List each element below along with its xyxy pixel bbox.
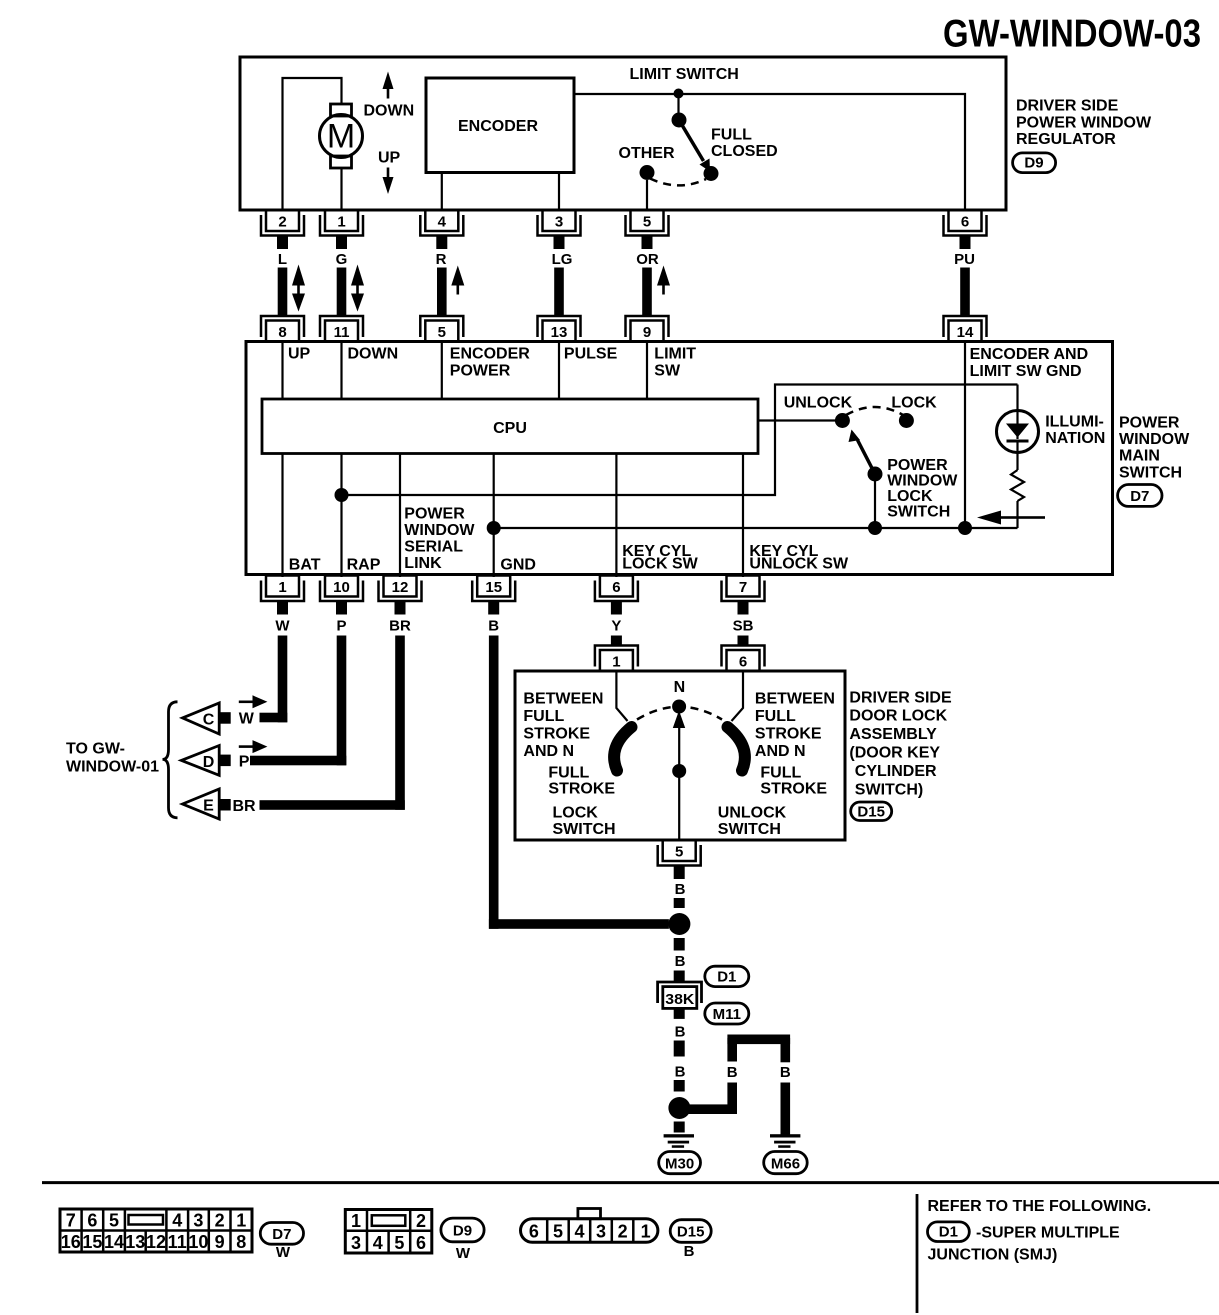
dashed arc between OTHER and FULL CLOSED: [650, 179, 706, 186]
wire LG (pin3 to pin13): [554, 268, 564, 316]
svg-text:ENCODER AND: ENCODER AND: [970, 346, 1089, 363]
svg-text:UP: UP: [288, 346, 311, 363]
svg-text:6: 6: [529, 1222, 539, 1242]
svg-text:B: B: [727, 1064, 738, 1081]
svg-text:LOCK SW: LOCK SW: [622, 556, 698, 573]
svg-text:12: 12: [146, 1232, 166, 1252]
svg-text:MAIN: MAIN: [1119, 448, 1160, 465]
svg-text:STROKE: STROKE: [548, 781, 615, 798]
svg-text:FULL: FULL: [755, 708, 796, 725]
contact UNLOCK dot: [835, 413, 850, 428]
connector oval D9 (bottom): [441, 1218, 484, 1242]
power window lock switch lever with arrow: [849, 430, 876, 475]
svg-text:W: W: [239, 711, 255, 728]
connector pin 14 (main switch D7): [944, 316, 987, 342]
limit switch contact OTHER: [640, 165, 655, 180]
svg-text:GW-WINDOW-03: GW-WINDOW-03: [943, 13, 1201, 56]
connector pin 5 (main switch D7): [420, 316, 463, 342]
svg-text:6: 6: [87, 1211, 97, 1231]
wire BR vertical: [395, 636, 405, 810]
encoder box: [426, 78, 574, 173]
svg-text:BAT: BAT: [289, 557, 321, 574]
connector oval D1: [705, 966, 749, 986]
svg-text:BR: BR: [389, 618, 411, 635]
svg-text:5: 5: [438, 324, 446, 341]
svg-text:M66: M66: [771, 1156, 800, 1173]
svg-text:WINDOW-01: WINDOW-01: [66, 759, 159, 776]
svg-text:4: 4: [574, 1222, 584, 1242]
connector pin 1 (main switch D7): [261, 576, 304, 615]
svg-text:SWITCH: SWITCH: [887, 504, 950, 521]
svg-text:5: 5: [643, 214, 651, 231]
node: RAP junction dot: [335, 488, 349, 502]
wire L (pin2 to pin8): [278, 268, 288, 316]
svg-text:SWITCH: SWITCH: [1119, 465, 1182, 482]
lever wire to pin 5: [678, 728, 680, 840]
svg-text:ILLUMI-: ILLUMI-: [1045, 414, 1104, 431]
label KEY CYL LOCK SW: [622, 543, 698, 573]
wire B branch right leg lower: [781, 1083, 791, 1136]
wire pin6 to unlock contact: [732, 671, 744, 721]
svg-text:2: 2: [416, 1211, 426, 1231]
connector oval D7 (bottom): [260, 1223, 303, 1245]
label DRIVER SIDE DOOR LOCK ASSEMBLY (DOOR KEY CYLINDER SWITCH): [849, 690, 952, 799]
svg-text:CYLINDER: CYLINDER: [855, 763, 937, 780]
svg-text:3: 3: [555, 214, 563, 231]
svg-text:B: B: [684, 1243, 695, 1260]
power window main switch box D7: [246, 342, 1113, 575]
svg-text:B: B: [675, 1064, 686, 1081]
svg-text:GND: GND: [500, 557, 536, 574]
svg-text:UNLOCK: UNLOCK: [718, 805, 787, 822]
connector pin 1 (door lock D15): [595, 646, 638, 672]
svg-text:M30: M30: [665, 1156, 694, 1173]
wire CPU to pin6 key cyl lock: [615, 454, 617, 578]
svg-text:1: 1: [337, 214, 345, 231]
svg-text:D: D: [203, 754, 215, 771]
svg-text:B: B: [675, 881, 686, 898]
svg-text:LOCK: LOCK: [887, 488, 933, 505]
connector pin 5 (regulator D9): [626, 210, 669, 249]
right arrow above P: [239, 740, 268, 753]
svg-text:RAP: RAP: [347, 557, 381, 574]
svg-text:FULL: FULL: [711, 127, 752, 144]
svg-text:N: N: [674, 679, 686, 696]
svg-text:5: 5: [394, 1233, 404, 1253]
svg-text:6: 6: [416, 1233, 426, 1253]
svg-text:B: B: [675, 953, 686, 970]
separator vertical line: [916, 1194, 919, 1313]
svg-text:W: W: [276, 1244, 291, 1261]
svg-text:4: 4: [438, 214, 447, 231]
ground symbol M30: [664, 1134, 694, 1148]
limit switch common node: [672, 89, 687, 128]
motor M: [320, 104, 363, 168]
svg-text:CLOSED: CLOSED: [711, 143, 778, 160]
connector pin 6 (main switch D7): [595, 576, 638, 615]
svg-text:NATION: NATION: [1045, 430, 1105, 447]
connector pin 7 (main switch D7): [722, 576, 765, 615]
wire pin5 to CPU: [441, 342, 443, 400]
lock switch contact band (left crescent): [614, 727, 631, 771]
label FULL CLOSED: [711, 127, 778, 161]
svg-text:D7: D7: [1130, 488, 1149, 505]
label LIMIT SW: [654, 346, 696, 380]
unlock switch contact band (right crescent): [728, 727, 745, 771]
wire: encoder to limit switch to pin 6: [574, 94, 965, 210]
svg-text:M: M: [327, 118, 355, 156]
svg-text:5: 5: [109, 1211, 119, 1231]
wire B branch horizontal from junction: [679, 1104, 737, 1114]
svg-text:DRIVER SIDE: DRIVER SIDE: [1016, 98, 1119, 115]
wire: motor to pin 2: [283, 78, 342, 210]
wire B dash: [674, 971, 685, 983]
svg-text:SWITCH: SWITCH: [718, 821, 781, 838]
wire: motor to pin 1: [340, 168, 342, 210]
connector oval D9: [1013, 153, 1056, 173]
svg-text:15: 15: [82, 1232, 102, 1252]
svg-text:SW: SW: [654, 363, 681, 380]
svg-text:G: G: [336, 251, 348, 268]
connector pin 5 (door lock D15): [658, 840, 701, 879]
svg-text:D15: D15: [857, 804, 885, 821]
svg-text:LINK: LINK: [404, 555, 442, 572]
svg-text:POWER: POWER: [404, 506, 465, 523]
connector oval D15 (bottom): [670, 1220, 711, 1243]
svg-text:6: 6: [739, 654, 747, 671]
wire SB stub: [738, 636, 749, 646]
left arrow on gnd rail: [977, 511, 1045, 525]
svg-text:DOOR LOCK: DOOR LOCK: [849, 708, 947, 725]
arrow up (DOWN direction): [383, 72, 394, 99]
wire pin14 to gnd rail: [964, 342, 966, 529]
dashed arc between UNLOCK and LOCK: [846, 407, 903, 415]
connector pin 11 (main switch D7): [320, 316, 363, 342]
connector pin 9 (main switch D7): [626, 316, 669, 342]
svg-text:7: 7: [66, 1211, 76, 1231]
wire CPU to pin10 RAP: [340, 454, 342, 578]
svg-text:14: 14: [104, 1232, 124, 1252]
svg-text:LG: LG: [552, 251, 573, 268]
svg-text:AND N: AND N: [523, 743, 574, 760]
svg-text:B: B: [780, 1064, 791, 1081]
svg-text:9: 9: [643, 324, 651, 341]
svg-text:R: R: [436, 251, 447, 268]
wire B vertical (GND): [489, 636, 499, 929]
svg-text:OR: OR: [636, 251, 659, 268]
wire: OTHER contact to pin 5: [646, 180, 648, 210]
ground name oval M30: [659, 1152, 701, 1174]
ground symbol M66: [770, 1134, 800, 1148]
wire CPU to pin12 serial: [399, 454, 401, 578]
connector oval D1 (refer): [928, 1222, 970, 1242]
connector oval D7: [1118, 485, 1162, 507]
wire B branch top bar: [727, 1035, 790, 1045]
wire P vertical: [337, 636, 347, 766]
svg-text:LIMIT SW GND: LIMIT SW GND: [970, 363, 1082, 380]
wire resistor to gnd rail: [1016, 501, 1018, 528]
wire W vertical: [278, 636, 288, 723]
svg-text:L: L: [278, 251, 287, 268]
lock switch pivot dot: [868, 467, 883, 482]
wire pivot to gnd rail: [874, 474, 876, 528]
svg-text:M11: M11: [713, 1006, 741, 1023]
svg-text:POWER: POWER: [887, 457, 948, 474]
svg-text:REFER TO THE FOLLOWING.: REFER TO THE FOLLOWING.: [928, 1198, 1152, 1215]
svg-text:D9: D9: [1024, 155, 1043, 172]
svg-text:5: 5: [553, 1222, 563, 1242]
svg-text:15: 15: [485, 579, 502, 596]
connector pin 12 (main switch D7): [379, 576, 422, 615]
svg-text:UNLOCK: UNLOCK: [784, 395, 853, 412]
svg-text:5: 5: [675, 844, 683, 861]
wire R (pin4 to pin5): [437, 268, 447, 316]
connector pin 3 (regulator D9): [538, 210, 581, 249]
wire lock box top to LED: [1016, 385, 1018, 413]
svg-text:(DOOR KEY: (DOOR KEY: [849, 745, 940, 762]
wire P horizontal to triangle D: [250, 756, 346, 766]
svg-text:11: 11: [334, 324, 350, 341]
svg-text:PU: PU: [954, 251, 975, 268]
CPU box: [262, 399, 758, 454]
svg-text:3: 3: [193, 1211, 203, 1231]
svg-text:PULSE: PULSE: [564, 346, 618, 363]
svg-text:W: W: [275, 618, 290, 635]
svg-text:FULL: FULL: [760, 765, 801, 782]
svg-text:SWITCH: SWITCH: [553, 821, 616, 838]
wire pin8 to CPU: [281, 342, 283, 400]
svg-text:SB: SB: [733, 618, 754, 635]
svg-text:DOWN: DOWN: [348, 346, 399, 363]
wire B branch left leg lower: [727, 1083, 737, 1115]
svg-text:SERIAL: SERIAL: [404, 539, 463, 556]
node: pin14 gnd dot: [958, 521, 972, 535]
svg-text:STROKE: STROKE: [755, 726, 822, 743]
label TO GW-WINDOW-01: [66, 741, 159, 776]
gnd rail horizontal: [494, 527, 1018, 529]
svg-text:BETWEEN: BETWEEN: [755, 691, 835, 708]
svg-text:ASSEMBLY: ASSEMBLY: [849, 726, 937, 743]
label POWER WINDOW MAIN SWITCH: [1119, 415, 1190, 482]
svg-text:UNLOCK SW: UNLOCK SW: [749, 556, 849, 573]
node: GND junction dot: [487, 521, 501, 535]
svg-text:8: 8: [278, 324, 286, 341]
connector pin 1 (regulator D9): [320, 210, 363, 249]
wire RAP junction to lock switch box: [342, 385, 1018, 496]
svg-text:LOCK: LOCK: [891, 395, 937, 412]
svg-text:LIMIT: LIMIT: [654, 346, 696, 363]
svg-text:OTHER: OTHER: [619, 145, 675, 162]
resistor (illumination): [1011, 470, 1024, 501]
svg-text:16: 16: [61, 1232, 81, 1252]
wire: encoder to pin 4: [441, 173, 443, 211]
wire B stub above M30 ground: [674, 1122, 685, 1133]
label POWER WINDOW LOCK SWITCH: [887, 457, 958, 521]
svg-text:ENCODER: ENCODER: [450, 346, 530, 363]
svg-text:38K: 38K: [665, 992, 695, 1008]
svg-text:D1: D1: [939, 1224, 958, 1241]
svg-text:STROKE: STROKE: [523, 726, 590, 743]
svg-text:1: 1: [612, 654, 620, 671]
svg-text:STROKE: STROKE: [760, 781, 827, 798]
connector oval M11: [705, 1003, 749, 1024]
svg-text:10: 10: [333, 579, 350, 596]
connector oval D15: [851, 802, 892, 821]
limit switch lever with arrow: [679, 120, 710, 172]
label LOCK SWITCH: [553, 805, 616, 839]
wire CPU to pin1 BAT: [281, 454, 283, 578]
svg-text:D9: D9: [453, 1223, 472, 1240]
up arrow on wire OR: [657, 266, 670, 295]
wire pin9 to CPU: [646, 342, 648, 400]
super multiple junction 38K: [658, 982, 702, 1008]
svg-text:1: 1: [278, 579, 286, 596]
connector face D15 (6 pin): [521, 1209, 658, 1243]
brace for TO GW-WINDOW-01: [163, 702, 178, 818]
svg-text:14: 14: [957, 324, 974, 341]
node: B junction dot (to M30): [668, 913, 690, 935]
svg-text:WINDOW: WINDOW: [887, 473, 958, 490]
svg-text:WINDOW: WINDOW: [1119, 431, 1190, 448]
svg-text:9: 9: [215, 1232, 225, 1252]
svg-text:POWER: POWER: [1119, 415, 1180, 432]
svg-text:2: 2: [618, 1222, 628, 1242]
lever middle dot: [672, 764, 686, 778]
svg-text:1: 1: [351, 1211, 361, 1231]
wire B dash: [674, 1041, 685, 1057]
svg-text:SWITCH): SWITCH): [855, 782, 923, 799]
wire BR horizontal to triangle E: [260, 800, 405, 810]
svg-text:REGULATOR: REGULATOR: [1016, 131, 1116, 148]
svg-text:DOWN: DOWN: [364, 103, 415, 120]
label ENCODER AND LIMIT SW GND: [970, 346, 1089, 380]
limit switch contact FULL CLOSED: [704, 166, 719, 181]
svg-text:TO GW-: TO GW-: [66, 741, 125, 758]
wire B stub below 38K: [674, 1008, 685, 1019]
connector face D9 (6 pin): [345, 1210, 432, 1254]
wire OR (pin5 to pin9): [642, 268, 652, 316]
svg-text:POWER WINDOW: POWER WINDOW: [1016, 115, 1152, 132]
svg-text:2: 2: [278, 214, 286, 231]
svg-text:BR: BR: [233, 798, 257, 815]
label ENCODER POWER: [450, 346, 530, 380]
svg-text:7: 7: [739, 579, 747, 596]
illumination LED: [997, 411, 1039, 471]
double arrow on wire G: [351, 265, 364, 312]
label ILLUMI-NATION: [1045, 414, 1105, 448]
svg-text:6: 6: [612, 579, 620, 596]
svg-text:-SUPER MULTIPLE: -SUPER MULTIPLE: [976, 1225, 1120, 1242]
svg-text:DRIVER SIDE: DRIVER SIDE: [849, 690, 952, 707]
separator line: [42, 1181, 1219, 1184]
connector pin 13 (main switch D7): [538, 316, 581, 342]
label POWER WINDOW SERIAL LINK: [404, 506, 475, 573]
svg-text:WINDOW: WINDOW: [404, 522, 475, 539]
triangle connector E: [183, 789, 231, 819]
svg-text:E: E: [203, 798, 214, 815]
svg-text:D15: D15: [677, 1224, 705, 1241]
svg-text:P: P: [336, 618, 346, 635]
connector pin 15 (main switch D7): [472, 576, 515, 615]
wire G (pin1 to pin11): [337, 268, 347, 316]
svg-text:B: B: [675, 1024, 686, 1041]
svg-text:4: 4: [172, 1211, 182, 1231]
lever up arrowhead below N: [673, 711, 685, 729]
svg-text:FULL: FULL: [523, 708, 564, 725]
ground name oval M66: [764, 1152, 808, 1174]
node: lock switch gnd dot: [868, 521, 882, 535]
svg-text:P: P: [239, 754, 250, 771]
connector face D7 (16 pin): [60, 1209, 252, 1252]
svg-text:W: W: [456, 1245, 471, 1262]
triangle connector D: [181, 746, 230, 776]
svg-text:B: B: [488, 618, 499, 635]
svg-text:Y: Y: [611, 618, 621, 635]
connector pin 2 (regulator D9): [261, 210, 304, 249]
wire B horizontal to junction: [489, 919, 669, 929]
svg-text:LIMIT SWITCH: LIMIT SWITCH: [630, 66, 739, 83]
wire CPU to UNLOCK contact: [758, 419, 842, 421]
wire CPU to pin7 key cyl unlock: [742, 454, 744, 578]
wire PU (pin6 to pin14): [960, 268, 970, 316]
svg-text:13: 13: [125, 1232, 145, 1252]
svg-text:10: 10: [188, 1232, 208, 1252]
connector pin 6 (door lock D15): [722, 646, 765, 672]
svg-text:ENCODER: ENCODER: [458, 118, 538, 135]
wire pin13 to CPU: [558, 342, 560, 400]
connector pin 6 (regulator D9): [944, 210, 987, 249]
svg-text:12: 12: [392, 579, 409, 596]
label FULL STROKE (right): [760, 765, 827, 798]
label UNLOCK SWITCH: [718, 805, 787, 839]
wire pin11 to CPU: [340, 342, 342, 400]
label KEY CYL UNLOCK SW: [749, 543, 849, 573]
connector pin 8 (main switch D7): [261, 316, 304, 342]
svg-text:AND N: AND N: [755, 743, 806, 760]
contact LOCK dot: [899, 413, 914, 428]
arrow down (UP direction): [383, 168, 394, 195]
svg-text:D1: D1: [717, 969, 736, 986]
svg-text:6: 6: [961, 214, 969, 231]
svg-text:1: 1: [236, 1211, 246, 1231]
svg-text:13: 13: [551, 324, 568, 341]
node: B junction dot (to M30/M66): [668, 1097, 690, 1119]
label BETWEEN FULL STROKE AND N (left): [523, 691, 603, 761]
svg-text:UP: UP: [378, 150, 401, 167]
svg-text:C: C: [203, 712, 215, 729]
double arrow on wire L: [292, 265, 305, 312]
svg-text:4: 4: [373, 1233, 383, 1253]
connector pin 4 (regulator D9): [420, 210, 463, 249]
svg-text:POWER: POWER: [450, 363, 511, 380]
triangle connector C: [183, 703, 231, 734]
contact N dot: [672, 700, 686, 714]
svg-text:LOCK: LOCK: [553, 805, 599, 822]
label BETWEEN FULL STROKE AND N (right): [755, 691, 835, 761]
wire CPU to pin15 GND: [493, 454, 495, 578]
wire: encoder to pin 3: [558, 173, 560, 211]
svg-text:JUNCTION (SMJ): JUNCTION (SMJ): [928, 1247, 1058, 1264]
right arrow above W: [239, 695, 268, 708]
wire B branch right leg upper: [781, 1038, 791, 1062]
wire B dash: [674, 938, 685, 951]
label FULL STROKE (left): [548, 765, 615, 798]
dashed arc lock range: [637, 707, 722, 720]
wire B dash: [674, 1080, 685, 1092]
wire B dash: [674, 898, 685, 908]
svg-text:1: 1: [641, 1222, 651, 1242]
svg-text:2: 2: [215, 1211, 225, 1231]
